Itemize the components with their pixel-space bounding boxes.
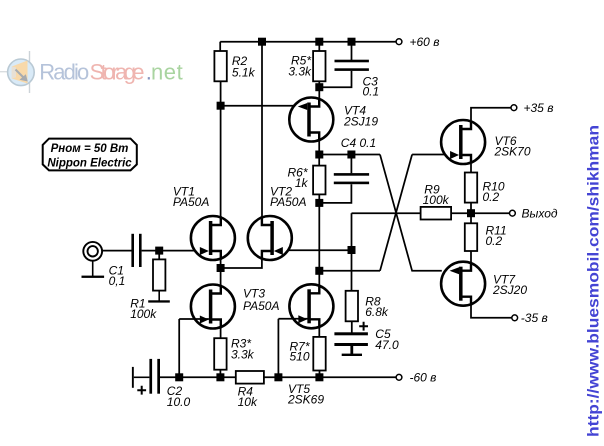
resistor R2 [214,51,226,81]
wire: VT2 source to junction [221,260,262,268]
node: rail junction C3 [348,38,356,46]
wire: VT3 gate line [179,318,209,320]
wire: VT3 source to R3 [220,328,222,338]
svg-text:-60 в: -60 в [410,371,437,385]
node: junction VT5 gate riser [274,373,282,381]
node: junction VT2 gate/R8 [348,246,356,254]
node: junction R2/VT4 gate [217,102,225,110]
wire: C4 bottom to R6 bottom [319,184,351,203]
svg-text:3.3k: 3.3k [288,65,312,79]
terminal -60V [396,374,402,380]
terminal +60V [396,39,402,45]
node: junction C2/VT3 gate [175,373,183,381]
svg-text:6.8k: 6.8k [365,305,389,319]
wire: R3 to rail [219,370,221,378]
terminal Выход [510,210,516,216]
node: junction C4 top [347,151,355,159]
wire: VT4 gate line [221,105,308,107]
svg-text:+60 в: +60 в [410,35,440,49]
capacitor C3 [335,60,369,71]
annotation box Pnom = 50 Vt / Nippon Electric [43,139,137,171]
wire: VT6 drain to +35V [471,108,511,121]
transistor VT5 2SK69 [289,284,333,328]
wire: VT7 source to -35V [471,305,512,318]
svg-text:2SK70: 2SK70 [494,145,531,159]
svg-text:PA50A: PA50A [243,299,279,313]
input connector [83,242,102,261]
transistor VT1 PA50A [191,216,235,260]
terminal +35V [511,105,517,111]
wire: R4 to -60V terminal [264,376,396,378]
svg-text:510: 510 [289,350,309,364]
wire: VT1 source to VT3 drain [220,260,222,285]
svg-text:10k: 10k [238,395,258,409]
wire: R9 to output node [451,212,510,214]
wire: R5 bottom to VT4 drain [318,81,320,98]
wire: R2 bottom to VT1 drain [220,81,222,216]
wire: +60V top rail [220,41,396,43]
wire: rail to VT2 drain [261,42,263,218]
wire: rail corner to R2 top [219,42,221,51]
wire: VT5 gate riser to rail [277,319,279,378]
svg-text:+35 в: +35 в [524,101,554,115]
node: junction R5/C3/VT4 [315,83,323,91]
wire: connector to C1 [102,250,132,252]
wire: C1 to VT1 gate [142,250,209,252]
node: junction VT5 drain tap [315,267,323,275]
wire: junction to C3 bottom [319,71,351,87]
svg-text:http://www.bluesmobil.com/shik: http://www.bluesmobil.com/shikhman [586,125,603,437]
node: junction VT4 source [315,151,323,159]
wire: R10 to R11 through output node [470,203,472,224]
resistor R6* [313,166,325,195]
transistor VT3 PA50A [191,285,235,329]
svg-text:0,1: 0,1 [109,274,126,288]
svg-text:10.0: 10.0 [167,395,191,409]
svg-text:0.1: 0.1 [363,85,380,99]
wire: feedback node to R9 [352,212,421,214]
wire: junction to C4 top plate [350,155,352,174]
wire: VT2 gate to junction [274,249,352,251]
wire: VT5 source to R7 [318,328,320,337]
wire: crossing diagonal A [380,155,442,271]
ground: R1 bottom [148,291,170,303]
resistor R1 [153,259,165,290]
wire: VT5 gate line [278,318,307,320]
svg-text:Radio: Radio [39,59,89,84]
transistor VT2 PA50A [248,216,292,260]
svg-text:2SJ20: 2SJ20 [492,283,527,297]
wire: R6 bottom to VT5 drain [318,194,320,284]
wire: VT4 source to R6 [318,141,320,165]
wire: VT4 source to cross [319,154,380,156]
resistor R9 [421,207,452,220]
node: rail junction VT2 [258,38,266,46]
wire: cross to VT6 gate [412,154,459,156]
resistor R4 [236,371,264,384]
wire: R11 to VT7 drain [470,251,472,262]
node: output junction [467,209,475,217]
svg-text:PA50A: PA50A [173,195,209,209]
resistor R8 [346,291,358,322]
svg-text:5.1k: 5.1k [232,66,256,80]
wire: crossing diagonal B [380,155,412,271]
svg-text:47.0: 47.0 [375,338,399,352]
wire: VT6 source to R10 [470,164,472,173]
svg-text:Выход: Выход [522,206,558,220]
svg-text:Storage: Storage [90,59,145,84]
svg-text:net: net [151,59,183,84]
svg-text:C4 0.1: C4 0.1 [341,136,376,150]
node: rail junction R5 [315,38,323,46]
wire: junction to R1 [158,251,160,260]
node: junction R6 bottom [315,199,323,207]
wire: down to R8 [351,213,353,291]
logo RadioStorage.net text [39,59,182,84]
resistor R3* [214,338,226,370]
svg-text:3.3k: 3.3k [231,347,255,361]
wire: R8 to C5 [351,321,353,333]
wire: VT5 drain to cross [319,270,380,272]
transistor VT4 2SJ19 [289,98,333,142]
svg-text:PA50A: PA50A [270,195,306,209]
svg-text:2SJ19: 2SJ19 [343,114,378,128]
wire: rail to R5 top [318,42,320,51]
svg-text:2SK69: 2SK69 [287,393,324,407]
svg-text:0.2: 0.2 [486,234,503,248]
terminal -35V [512,315,518,321]
svg-text:1k: 1k [295,176,309,190]
svg-text:Nippon Electric: Nippon Electric [47,158,132,170]
resistor R10 [465,173,477,203]
node: junction R3 bottom [216,373,224,381]
resistor R7* [313,337,325,371]
wire: R7 to rail [319,371,321,378]
capacitor C5 (polarized) [334,322,368,356]
transistor VT7 2SJ20 [441,262,485,306]
node: junction R7 bottom [315,373,323,381]
node: junction VT1/VT2 sources [217,264,225,272]
resistor R5* [313,51,325,81]
wire: C2 to R4 [160,376,236,378]
capacitor C1 [131,234,141,267]
capacitor C2 (polarized) [132,359,160,395]
svg-text:-35 в: -35 в [521,311,548,325]
node: junction input/R1 [155,247,163,255]
transistor VT6 2SK70 [441,120,485,164]
svg-text:100k: 100k [130,307,157,321]
logo RadioStorage.net icon [0,51,34,93]
wire: rail to C3 top [351,42,353,61]
resistor R11 [465,223,477,251]
svg-text:0.2: 0.2 [483,190,500,204]
wire: VT3 gate riser to rail [178,319,180,377]
capacitor C4 [334,173,369,184]
svg-text:100k: 100k [423,193,450,207]
ground: input return [82,260,105,278]
svg-text:Рном = 50 Вт: Рном = 50 Вт [51,143,129,155]
